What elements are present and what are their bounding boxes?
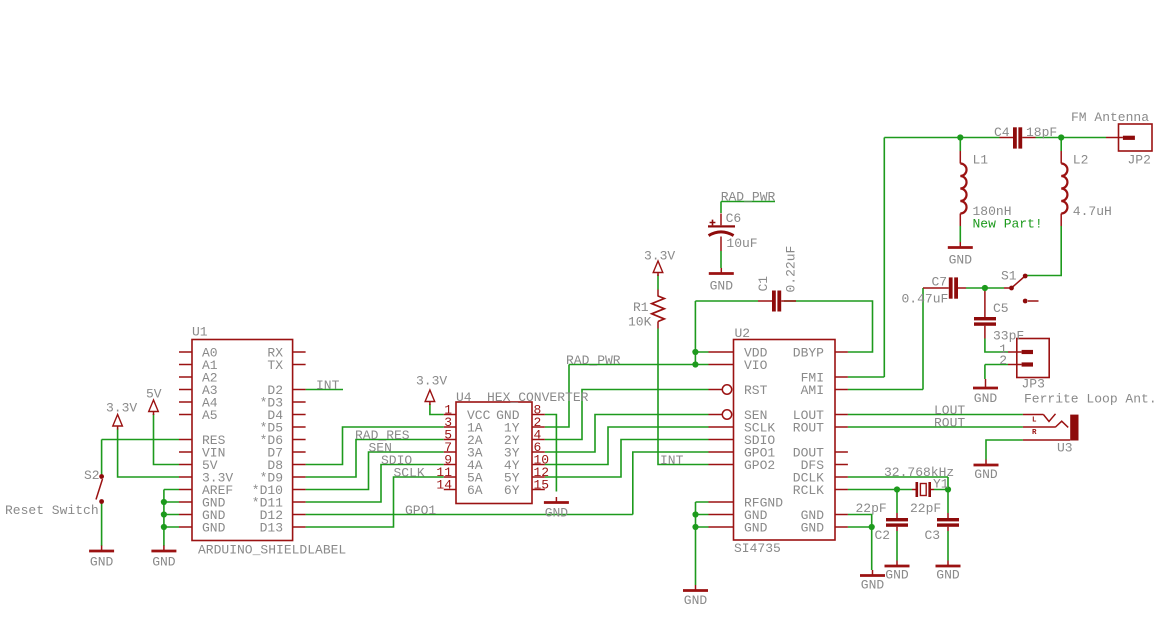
svg-text:RAD_PWR: RAD_PWR [566, 353, 621, 368]
svg-text:GND: GND [202, 521, 226, 536]
svg-text:D13: D13 [260, 521, 283, 536]
svg-text:10uF: 10uF [726, 236, 757, 251]
svg-text:GPO1: GPO1 [405, 503, 436, 518]
svg-text:0.47uF: 0.47uF [902, 292, 949, 307]
svg-text:C5: C5 [993, 301, 1009, 316]
svg-text:DBYP: DBYP [793, 346, 824, 361]
svg-text:C1: C1 [756, 276, 771, 292]
svg-text:U2: U2 [735, 326, 751, 341]
svg-text:U4: U4 [456, 390, 472, 405]
svg-text:L: L [1032, 417, 1037, 425]
svg-text:TX: TX [267, 358, 283, 373]
svg-text:HEX_CONVERTER: HEX_CONVERTER [487, 390, 589, 405]
svg-text:VIO: VIO [744, 358, 768, 373]
svg-text:GND: GND [974, 391, 998, 406]
svg-text:22pF: 22pF [910, 501, 941, 516]
svg-text:RST: RST [744, 383, 768, 398]
svg-text:0.22uF: 0.22uF [784, 246, 799, 293]
svg-text:S1: S1 [1001, 269, 1017, 284]
svg-text:GND: GND [152, 555, 176, 570]
svg-text:3.3V: 3.3V [106, 401, 137, 416]
svg-text:INT: INT [316, 378, 340, 393]
svg-text:S2: S2 [84, 468, 100, 483]
svg-text:L2: L2 [1073, 153, 1089, 168]
svg-text:GND: GND [936, 568, 960, 583]
svg-text:FM Antenna: FM Antenna [1071, 110, 1149, 125]
svg-text:GPO2: GPO2 [744, 458, 775, 473]
svg-text:GND: GND [801, 521, 825, 536]
svg-text:6A: 6A [467, 483, 483, 498]
svg-text:18pF: 18pF [1026, 125, 1057, 140]
svg-text:GND: GND [885, 568, 909, 583]
svg-text:GND: GND [684, 593, 708, 608]
svg-text:GND: GND [545, 506, 569, 521]
svg-text:JP3: JP3 [1022, 377, 1045, 392]
svg-text:A5: A5 [202, 408, 218, 423]
svg-text:SI4735: SI4735 [734, 541, 781, 556]
svg-text:U3: U3 [1057, 441, 1073, 456]
svg-text:C3: C3 [925, 528, 941, 543]
svg-text:ROUT: ROUT [934, 416, 965, 431]
svg-text:14: 14 [436, 477, 452, 492]
svg-text:2: 2 [999, 353, 1007, 368]
svg-text:RAD_PWR: RAD_PWR [721, 190, 776, 205]
svg-text:C2: C2 [875, 528, 891, 543]
svg-text:R: R [1032, 429, 1037, 437]
svg-text:ARDUINO_SHIELDLABEL: ARDUINO_SHIELDLABEL [198, 543, 346, 558]
svg-text:R1: R1 [633, 300, 649, 315]
svg-text:New Part!: New Part! [973, 217, 1043, 232]
svg-text:GND: GND [744, 521, 768, 536]
svg-text:C7: C7 [932, 275, 948, 290]
svg-text:U1: U1 [192, 325, 208, 340]
svg-text:10K: 10K [628, 315, 652, 330]
svg-text:Ferrite Loop Ant.: Ferrite Loop Ant. [1024, 392, 1157, 407]
svg-text:33pF: 33pF [993, 329, 1024, 344]
svg-text:Y1: Y1 [933, 477, 949, 492]
svg-text:GND: GND [710, 279, 734, 294]
svg-text:15: 15 [534, 477, 550, 492]
svg-text:C6: C6 [726, 211, 742, 226]
svg-text:AMI: AMI [801, 383, 824, 398]
svg-text:5V: 5V [146, 387, 162, 402]
svg-text:RCLK: RCLK [793, 483, 824, 498]
svg-text:ROUT: ROUT [793, 421, 824, 436]
svg-text:Reset Switch: Reset Switch [5, 503, 99, 518]
svg-text:JP2: JP2 [1128, 153, 1151, 168]
svg-text:GND: GND [974, 467, 998, 482]
svg-text:INT: INT [660, 453, 684, 468]
svg-text:GND: GND [90, 555, 114, 570]
svg-text:GND: GND [949, 253, 973, 268]
svg-text:6Y: 6Y [504, 483, 520, 498]
svg-text:22pF: 22pF [856, 501, 887, 516]
svg-text:L1: L1 [973, 153, 989, 168]
svg-text:3.3V: 3.3V [416, 374, 447, 389]
svg-text:C4: C4 [994, 125, 1010, 140]
svg-text:3.3V: 3.3V [644, 249, 675, 264]
svg-text:GND: GND [861, 578, 885, 593]
svg-text:4.7uH: 4.7uH [1073, 204, 1112, 219]
svg-text:SCLK: SCLK [394, 466, 425, 481]
